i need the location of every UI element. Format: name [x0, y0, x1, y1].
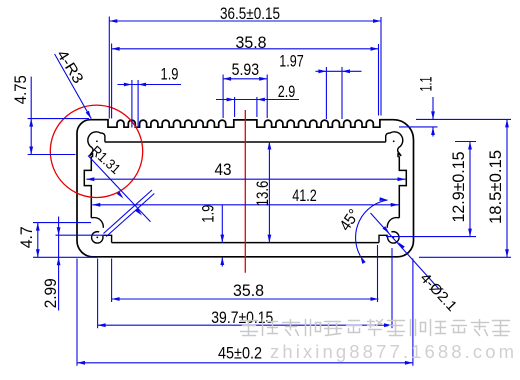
dimension 2.9 line — [216, 99, 299, 101]
extension line x=267.2 above profile — [266, 75, 268, 119]
svg-text:1.1: 1.1 — [418, 77, 436, 92]
watermark chinese company name row — [241, 321, 258, 336]
svg-text:39.7±0.15: 39.7±0.15 — [211, 309, 273, 327]
right inner wall with PCB groove — [399, 156, 406, 218]
svg-text:zhixing8877.1688.com: zhixing8877.1688.com — [270, 341, 517, 362]
inner floor wall line — [112, 242, 379, 244]
svg-text:45±0.2: 45±0.2 — [218, 345, 262, 363]
top-right screw boss — [386, 132, 403, 157]
extension line y=141.5 — [455, 141, 476, 143]
extension line y=154.5 — [28, 154, 76, 156]
dimension 12.9±0.15 line — [469, 142, 471, 237]
extension line x=377.5 below profile — [377, 245, 379, 302]
svg-text:36.5±0.15: 36.5±0.15 — [220, 5, 280, 23]
extension line x=378.5 above profile — [378, 44, 380, 116]
dimension 36.5±0.15 line — [109, 20, 381, 22]
dimension 43 line — [86, 178, 405, 180]
extension line x=256.9 above profile — [256, 97, 258, 117]
extension line x=97.6 below profile — [97, 259, 99, 329]
dimension 4.7 line — [37, 223, 39, 258]
svg-text:43: 43 — [215, 161, 232, 179]
extension line x=326.4 above profile — [325, 67, 327, 119]
dimension 1.9 floor line — [221, 205, 223, 243]
extension line x=234.6 above profile — [234, 97, 236, 117]
extension line y=257.3 — [419, 256, 511, 258]
dimension 45±0.2 line — [77, 362, 413, 364]
leader line R1.31 — [88, 156, 151, 222]
dimension 1.9 fin line — [118, 84, 182, 86]
dimension 35.8 top line — [112, 48, 379, 50]
dimension 18.5±0.15 line — [506, 119, 508, 257]
extension line x=131.9 above profile — [131, 80, 133, 128]
extension line x=381 above profile — [380, 17, 382, 116]
left inner wall with PCB groove — [84, 156, 91, 218]
svg-text:35.8: 35.8 — [233, 282, 264, 300]
dimension 5.93 line — [223, 78, 267, 80]
extension line x=111.6 below profile — [111, 259, 113, 303]
svg-text:2.99: 2.99 — [42, 278, 60, 308]
45 degree angle dimension arc — [356, 200, 388, 256]
extension line x=342 above profile — [341, 67, 343, 119]
svg-text:18.5±0.15: 18.5±0.15 — [487, 150, 505, 224]
dimension 39.7±0.15 line — [98, 324, 392, 326]
red detail circle highlighting top-left corner — [50, 105, 142, 197]
leader line 4-dia2.1 — [371, 213, 439, 289]
extension line x=77 below profile — [76, 259, 78, 366]
svg-text:4.75: 4.75 — [12, 75, 30, 104]
bottom-left screw boss — [91, 218, 103, 228]
dimension 41.2 line — [92, 204, 398, 206]
svg-text:5.93: 5.93 — [232, 61, 260, 79]
svg-text:1.97: 1.97 — [279, 52, 304, 70]
svg-text:1.9: 1.9 — [161, 66, 179, 84]
dimension 4.75 line — [30, 77, 32, 155]
extension line y=236.6 — [386, 236, 476, 238]
dimension 13.6 line — [268, 142, 270, 243]
dimension 35.8 bottom line — [112, 298, 379, 300]
leader line to bottom-left boss — [104, 190, 153, 234]
svg-text:12.9±0.15: 12.9±0.15 — [450, 152, 468, 223]
extension line x=223.1 above profile — [222, 75, 224, 119]
dimension 1.97 line — [316, 70, 362, 72]
extension line x=412.9 below profile — [412, 259, 414, 366]
extension line x=109.3 above profile — [108, 17, 110, 119]
extension line y=118.6 — [28, 118, 89, 120]
svg-text:35.8: 35.8 — [236, 34, 267, 52]
extension line y=222.6 — [33, 222, 91, 224]
svg-text:4.7: 4.7 — [18, 226, 36, 248]
inner ceiling wall line — [105, 141, 386, 143]
dimension 2.99 line — [58, 217, 60, 311]
extension line y=119.4 — [416, 118, 511, 120]
svg-text:1.9: 1.9 — [200, 205, 218, 223]
dimension 1.1 line — [432, 97, 434, 119]
extension line y=257.3 — [33, 256, 98, 258]
aluminum enclosure profile outer outline with heatsink fins — [77, 120, 414, 257]
extension line x=111.6 above profile — [111, 44, 113, 119]
bottom-right screw boss — [379, 218, 399, 243]
top-left screw boss — [88, 132, 105, 157]
svg-text:2.9: 2.9 — [278, 83, 296, 101]
extension line y=126.9 — [399, 126, 438, 128]
leader line to bottom-left boss second — [106, 194, 154, 237]
svg-text:41.2: 41.2 — [292, 187, 317, 205]
red vertical centerline — [244, 110, 246, 273]
extension line x=138.1 above profile — [137, 80, 139, 128]
svg-text:13.6: 13.6 — [254, 181, 272, 207]
extension line y=235.2 — [56, 234, 107, 236]
leader line 4-R3 — [55, 54, 92, 119]
extension line x=392 below profile — [391, 248, 393, 328]
